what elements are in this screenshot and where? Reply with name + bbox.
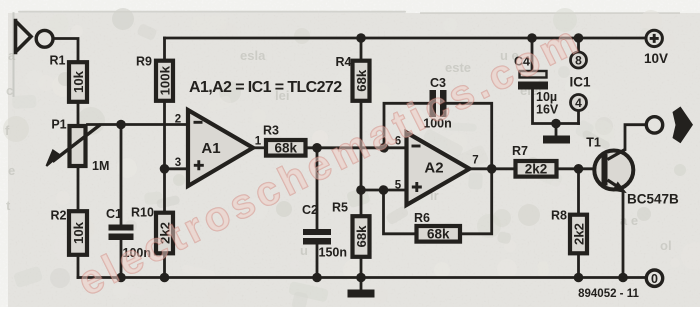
resistor R6 xyxy=(414,211,460,242)
wire R8 top xyxy=(577,169,580,213)
junction R5 rail xyxy=(356,273,366,283)
wire A1 out to R3 xyxy=(253,146,264,149)
junction R8 tap xyxy=(574,164,584,174)
capacitor C3 xyxy=(423,76,452,131)
svg-text:A2: A2 xyxy=(424,160,443,177)
svg-text:R6: R6 xyxy=(414,211,430,225)
svg-text:10k: 10k xyxy=(71,221,86,244)
IC1 pin 4 xyxy=(571,95,587,111)
wire R1 to P1 xyxy=(77,104,80,124)
scan edge smudges xyxy=(18,11,406,13)
svg-text:R10: R10 xyxy=(131,206,154,220)
wire C1 top xyxy=(120,125,123,225)
svg-text:68k: 68k xyxy=(427,226,450,241)
svg-text:R2: R2 xyxy=(51,209,67,223)
wire collector xyxy=(625,125,645,150)
junction pin8 rail xyxy=(574,33,584,43)
svg-text:C2: C2 xyxy=(302,203,318,217)
resistor R3 xyxy=(263,124,305,156)
wire rail to R4 xyxy=(360,38,363,59)
op-amp A1 xyxy=(175,110,262,186)
junction C1 rail xyxy=(116,273,126,283)
svg-text:16V: 16V xyxy=(536,103,559,117)
resistor R8 xyxy=(551,209,587,254)
junction C2 rail xyxy=(312,273,322,283)
wire input to R1 xyxy=(55,39,78,61)
svg-text:2: 2 xyxy=(175,114,181,126)
resistor R10 xyxy=(131,206,173,254)
resistor R5 xyxy=(332,201,369,257)
wire R10 to rail xyxy=(163,256,166,278)
wire R6 feedback left xyxy=(384,190,415,234)
resistor R2 xyxy=(51,209,87,255)
svg-text:150n: 150n xyxy=(319,246,348,260)
wire P1 wiper to A1 pin2 xyxy=(88,123,189,126)
resistor R4 xyxy=(336,55,370,101)
svg-text:e: e xyxy=(8,163,15,178)
svg-text:IC1: IC1 xyxy=(569,75,591,90)
transistor T1 xyxy=(586,136,633,193)
wire C3 feedback left xyxy=(384,103,430,148)
junction R6 tap xyxy=(379,185,389,195)
IC1 pin 8 xyxy=(571,52,587,68)
svg-text:A1: A1 xyxy=(201,140,220,157)
svg-text:5: 5 xyxy=(395,180,402,192)
svg-text:BC547B: BC547B xyxy=(627,192,679,207)
junction R4 rail xyxy=(356,33,366,43)
svg-text:R5: R5 xyxy=(332,201,348,215)
junction supply ground node xyxy=(551,119,561,129)
wire rail to C4 xyxy=(531,38,534,71)
svg-text:2k2: 2k2 xyxy=(525,161,548,176)
svg-text:t: t xyxy=(6,198,11,213)
op-amp A2 xyxy=(395,133,479,206)
wire R4 to R5 xyxy=(360,103,363,214)
junction C4 rail xyxy=(527,33,537,43)
svg-text:R4: R4 xyxy=(336,55,352,69)
wire C3 feedback right xyxy=(447,103,492,169)
svg-text:1M: 1M xyxy=(92,159,109,173)
junction R10 rail xyxy=(160,273,170,283)
wire P1 to R2 xyxy=(77,168,80,208)
svg-text:10V: 10V xyxy=(644,51,668,66)
junction A1 pin3 node xyxy=(160,164,170,174)
wire to A1 pin3 xyxy=(165,167,189,170)
wire C2 top xyxy=(316,148,319,229)
svg-text:68k: 68k xyxy=(354,225,369,248)
svg-text:10k: 10k xyxy=(71,70,86,93)
wire top supply rail xyxy=(165,37,645,40)
capacitor C4 electrolytic xyxy=(514,55,559,117)
wire emitter xyxy=(622,192,625,278)
junction A2 pin5 node xyxy=(356,185,366,195)
svg-text:R7: R7 xyxy=(512,144,528,158)
wire C1 bottom to rail xyxy=(120,240,123,278)
resistor R9 xyxy=(136,55,173,101)
junction R8 rail xyxy=(574,273,584,283)
wire R8 to rail xyxy=(577,256,580,278)
wire to A2 pin5 xyxy=(361,189,407,192)
svg-text:0: 0 xyxy=(651,272,658,286)
svg-text:7: 7 xyxy=(472,155,478,167)
svg-text:R3: R3 xyxy=(263,124,279,138)
junction C3 tap xyxy=(379,143,389,153)
wire R5 to rail xyxy=(360,259,363,278)
junction node C1 tap xyxy=(116,120,126,130)
resistor R1 xyxy=(50,54,87,102)
output arrow symbol xyxy=(673,107,694,144)
wire R2 to rail xyxy=(77,258,80,278)
junction C2 tap xyxy=(312,143,322,153)
svg-text:u: u xyxy=(300,243,308,258)
wire bottom 0V rail xyxy=(78,276,645,279)
svg-text:T1: T1 xyxy=(586,136,601,150)
ground bar symbol supply xyxy=(543,124,570,144)
svg-text:C1: C1 xyxy=(106,207,122,221)
svg-text:1: 1 xyxy=(255,136,262,148)
svg-text:f: f xyxy=(5,123,10,138)
svg-text:R1: R1 xyxy=(50,54,66,68)
wire A2 out xyxy=(470,167,514,170)
svg-text:ol: ol xyxy=(660,238,672,253)
svg-text:R9: R9 xyxy=(136,55,152,69)
wire rail to R9 xyxy=(163,38,166,59)
svg-text:894052 - 11: 894052 - 11 xyxy=(578,288,639,300)
terminal 0V xyxy=(646,270,662,286)
potentiometer P1 xyxy=(47,118,110,174)
wire C2 bottom to rail xyxy=(316,245,319,278)
svg-text:A1,A2 = IC1 = TLC272: A1,A2 = IC1 = TLC272 xyxy=(189,79,342,96)
input terminal circle xyxy=(36,30,53,47)
capacitor C2 xyxy=(302,203,347,260)
svg-text:3: 3 xyxy=(175,157,181,169)
svg-text:100k: 100k xyxy=(158,65,173,95)
svg-text:c: c xyxy=(6,83,13,98)
junction A2 output node xyxy=(487,164,497,174)
input arrow symbol xyxy=(16,21,32,53)
svg-text:4: 4 xyxy=(575,96,582,110)
junction emitter rail xyxy=(618,273,628,283)
svg-text:P1: P1 xyxy=(51,118,66,132)
wire R9 to R10 xyxy=(163,103,166,211)
svg-text:68k: 68k xyxy=(354,69,369,92)
wire R7 to base xyxy=(559,167,602,170)
wire rail to pin8 xyxy=(577,38,580,51)
wire pin4 down xyxy=(577,112,580,124)
supply terminal +10V xyxy=(644,30,668,66)
capacitor C1 xyxy=(106,207,151,260)
svg-text:R8: R8 xyxy=(551,209,567,223)
svg-text:esla: esla xyxy=(240,48,266,63)
wire C4 bottom xyxy=(533,90,579,124)
output terminal circle xyxy=(646,117,662,133)
wire R3 to A2 pin6 xyxy=(308,146,407,149)
svg-text:2k2: 2k2 xyxy=(572,223,587,245)
wire R6 feedback right xyxy=(462,169,492,234)
resistor R7 xyxy=(512,144,556,177)
ground bar symbol bottom xyxy=(348,278,375,298)
